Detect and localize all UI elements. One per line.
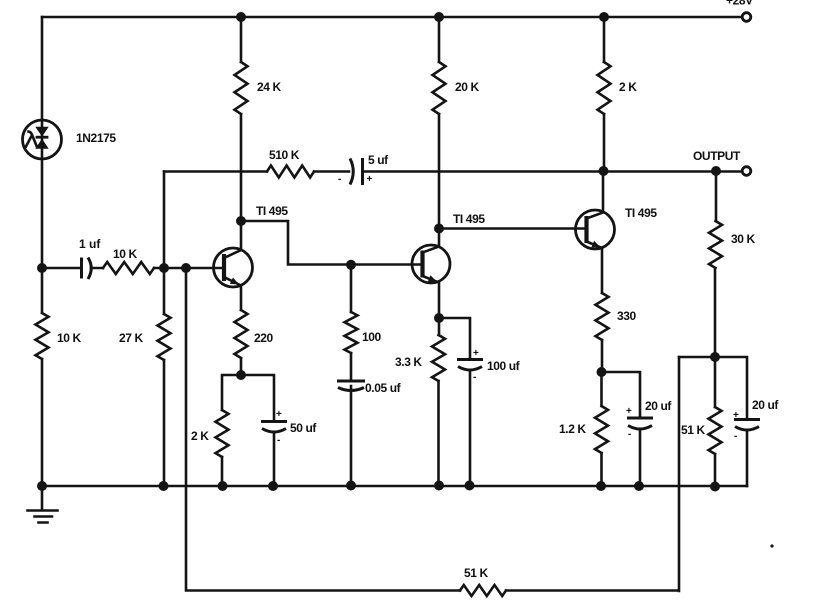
resistor 10K (left vertical)	[36, 313, 49, 359]
node feedback tap on base line	[181, 263, 191, 273]
svg-text:27 K: 27 K	[119, 331, 143, 345]
resistor 1.2K	[600, 372, 603, 486]
node 30K/51K/20uf junction	[710, 352, 720, 362]
svg-text:3.3 K: 3.3 K	[395, 355, 422, 369]
wire top +28V rail	[42, 16, 742, 19]
svg-text:10 K: 10 K	[57, 331, 81, 345]
svg-text:+: +	[473, 348, 479, 359]
node junction 10K/27K/510K leg	[159, 263, 169, 273]
node Q2 emitter split	[434, 313, 444, 323]
wire base input line	[42, 267, 224, 270]
stray mark	[770, 544, 773, 547]
svg-text:1.2 K: 1.2 K	[559, 422, 586, 436]
svg-text:20 K: 20 K	[455, 80, 479, 94]
wire 220 to split node	[240, 358, 243, 375]
svg-text:24 K: 24 K	[257, 80, 281, 94]
svg-text:510 K: 510 K	[269, 148, 300, 162]
capacitor C7 20uf (right)	[733, 410, 760, 486]
capacitor C4 0.05uf	[337, 381, 365, 391]
wire to 20uf	[602, 372, 641, 418]
svg-text:-: -	[338, 174, 341, 185]
resistor 3.3K	[437, 318, 440, 486]
svg-text:+28V: +28V	[726, 0, 753, 8]
capacitor C2 5uf	[338, 158, 373, 185]
node Q1 collector	[236, 216, 246, 226]
wire to 100uf	[439, 318, 470, 360]
wire 24K column	[240, 17, 243, 221]
resistor 330	[596, 293, 609, 340]
wire 510K leg vertical	[163, 172, 166, 315]
node Q3 emitter split	[597, 367, 607, 377]
wire 27K to ground rail	[163, 360, 166, 486]
node 27K at rail	[159, 481, 169, 491]
wire left vertical bus	[41, 17, 44, 486]
svg-text:OUTPUT: OUTPUT	[693, 149, 741, 163]
wire feedback down + bottom run	[186, 268, 679, 591]
svg-text:30 K: 30 K	[731, 232, 755, 246]
node 2K top	[599, 12, 609, 22]
node output/collector junction	[599, 166, 609, 176]
capacitor C6 20uf	[626, 406, 653, 486]
node output tap	[711, 166, 721, 176]
wire 330 to split	[601, 340, 604, 372]
svg-text:100 uf: 100 uf	[487, 359, 521, 373]
transistor Q2 TI495	[412, 229, 450, 319]
svg-text:220: 220	[254, 331, 274, 345]
wire 20K column	[438, 17, 441, 229]
svg-text:1N2175: 1N2175	[76, 131, 116, 145]
resistor 51K (bottom feedback)	[460, 585, 506, 596]
svg-text:-: -	[628, 429, 631, 440]
svg-text:1 uf: 1 uf	[79, 237, 101, 251]
capacitor C1 1uf (input coupling)	[82, 258, 92, 280]
svg-text:10 K: 10 K	[113, 247, 137, 261]
resistor 220	[235, 310, 248, 358]
svg-text:20 uf: 20 uf	[645, 399, 672, 413]
resistor 27K	[158, 314, 171, 360]
capacitor C5 100uf	[457, 348, 483, 486]
transistor Q3 TI495	[576, 171, 615, 293]
wire split horizontals	[222, 375, 274, 421]
svg-text:20 uf: 20 uf	[752, 398, 779, 412]
resistor 510K	[267, 166, 314, 178]
svg-text:-: -	[277, 435, 280, 446]
svg-text:+: +	[733, 410, 739, 421]
svg-text:51 K: 51 K	[681, 423, 705, 437]
terminal OUTPUT	[742, 167, 751, 176]
svg-text:0.05 uf: 0.05 uf	[365, 381, 402, 395]
svg-text:+: +	[276, 409, 282, 420]
svg-text:51 K: 51 K	[464, 566, 488, 580]
node 24K top	[236, 12, 246, 22]
resistor 2K (collector)	[598, 62, 611, 114]
node base line dot at left bus	[37, 263, 47, 273]
svg-text:50 uf: 50 uf	[290, 421, 317, 435]
svg-text:330: 330	[617, 309, 637, 323]
node emitter split Q1	[236, 370, 246, 380]
svg-text:+: +	[626, 406, 632, 417]
node ground junction	[37, 481, 47, 491]
wire Q2 collector to Q3 base	[439, 227, 587, 230]
svg-text:+: +	[367, 174, 373, 185]
transistor Q1 TI495	[214, 221, 253, 310]
ground	[28, 486, 58, 523]
node Q2 collector / Q3 base wire	[434, 224, 444, 234]
photodiode D1 1N2175	[23, 120, 62, 159]
wire 100-ohm column	[350, 265, 353, 486]
svg-text:TI 495: TI 495	[256, 204, 288, 218]
svg-text:100: 100	[362, 330, 382, 344]
resistor 51K (right)	[714, 357, 717, 487]
resistor 2K (Q1 emitter)	[216, 410, 229, 457]
capacitor C3 50uf	[261, 409, 287, 486]
wire right block top	[679, 357, 747, 420]
svg-text:5 uf: 5 uf	[368, 153, 389, 167]
terminal +28V	[726, 0, 753, 21]
resistor 30K	[709, 221, 722, 268]
node 100-ohm tap	[346, 260, 356, 270]
resistor 100	[345, 312, 358, 353]
resistor 20K	[433, 62, 446, 114]
svg-text:2 K: 2 K	[191, 429, 209, 443]
node 20K top	[434, 12, 444, 22]
wire 2K column	[603, 17, 606, 171]
resistor 24K	[235, 62, 248, 114]
svg-text:TI 495: TI 495	[453, 212, 485, 226]
svg-text:-: -	[734, 431, 737, 442]
svg-text:-: -	[473, 372, 476, 383]
wire bottom ground rail	[42, 485, 747, 488]
svg-text:TI 495: TI 495	[625, 206, 657, 220]
resistor 10K (horizontal at base)	[103, 262, 154, 274]
svg-text:2 K: 2 K	[619, 80, 637, 94]
wire Q1 collector to Q2 base jog	[241, 221, 423, 265]
wire 30K column	[715, 171, 716, 357]
wire output/feedback horizontal line	[164, 170, 742, 173]
